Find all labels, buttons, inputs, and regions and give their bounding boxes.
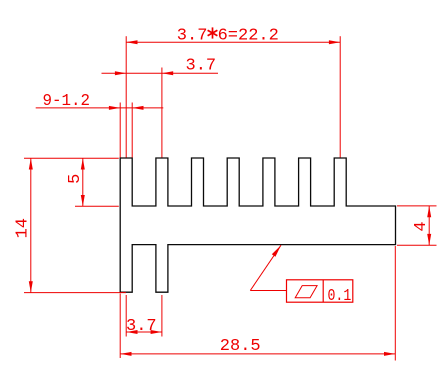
dimension 3.7 (bottom legs): [126, 295, 162, 337]
dimension 9-1.2: [36, 103, 164, 158]
svg-text:3.7: 3.7: [126, 317, 157, 336]
svg-text:3.7: 3.7: [177, 27, 208, 46]
svg-text:9-1.2: 9-1.2: [43, 92, 91, 111]
svg-text:3.7: 3.7: [186, 56, 217, 75]
dimension 5 (fin height): [24, 158, 119, 206]
svg-text:5: 5: [66, 174, 85, 184]
svg-text:4: 4: [412, 221, 431, 231]
flatness tolerance leader: [250, 245, 286, 290]
dimension 4 (base thickness): [397, 206, 437, 245]
svg-text:6=22.2: 6=22.2: [218, 27, 279, 46]
asterisk star: [208, 27, 218, 38]
feature control frame: [287, 280, 353, 302]
dimension 3.7*6=22.2: [126, 36, 340, 157]
dimension 28.5 (overall width): [120, 246, 395, 361]
svg-text:14: 14: [14, 218, 33, 238]
heatsink profile outline: [120, 158, 395, 292]
svg-text:28.5: 28.5: [220, 337, 261, 356]
svg-text:0.1: 0.1: [328, 286, 352, 305]
dimension 3.7 (top pitch): [102, 68, 219, 158]
dimension 14 (total height): [24, 158, 126, 292]
parallelism symbol: [295, 286, 317, 298]
